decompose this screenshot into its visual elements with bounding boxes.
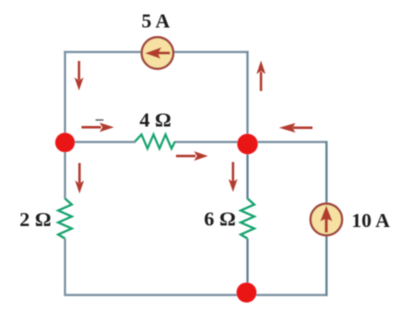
current source 5 A (circle) bbox=[142, 37, 174, 69]
current arrow left (right of center node) bbox=[279, 123, 313, 133]
resistor 6 ohm bbox=[241, 199, 255, 239]
current source 10 A (circle) bbox=[311, 204, 343, 236]
polarity dash (minus) bbox=[96, 119, 104, 121]
resistor 2 ohm bbox=[58, 199, 72, 239]
node left (junction dot) bbox=[55, 133, 75, 153]
wire left vertical upper bbox=[64, 51, 66, 199]
wire center vertical lower bbox=[246, 239, 248, 296]
label 5 A bbox=[142, 11, 171, 33]
current arrow right (before 4-ohm) bbox=[82, 123, 115, 132]
node center (junction dot) bbox=[237, 134, 258, 155]
current arrow up (right-top branch) bbox=[257, 61, 266, 92]
wire middle horizontal left of 4-ohm bbox=[65, 141, 136, 143]
wire top horizontal bbox=[64, 51, 249, 53]
resistor 4 ohm bbox=[135, 135, 175, 149]
wire bottom horizontal bbox=[64, 294, 328, 296]
label 6 ohm bbox=[204, 209, 236, 231]
node bottom (junction dot) bbox=[237, 283, 257, 303]
current arrow down (above 6-ohm) bbox=[229, 162, 238, 192]
svg-text:2 Ω: 2 Ω bbox=[20, 209, 52, 231]
svg-text:10 A: 10 A bbox=[352, 210, 391, 232]
current arrow right (after 4-ohm) bbox=[176, 151, 208, 160]
wire right vertical bbox=[325, 141, 327, 296]
svg-text:5 A: 5 A bbox=[142, 11, 171, 33]
wire middle horizontal right of 4-ohm bbox=[175, 141, 248, 143]
label 4 ohm bbox=[140, 110, 172, 132]
label 10 A bbox=[352, 210, 391, 232]
current arrow down (left branch top) bbox=[75, 61, 84, 91]
wire center node to right branch bbox=[248, 141, 327, 143]
wire left vertical lower bbox=[64, 239, 66, 297]
wire right-top vertical bbox=[246, 51, 248, 142]
svg-text:4 Ω: 4 Ω bbox=[140, 110, 172, 132]
label 2 ohm bbox=[20, 209, 52, 231]
wire center vertical upper bbox=[246, 142, 248, 199]
current arrow down (above 2-ohm) bbox=[75, 163, 84, 194]
svg-text:6 Ω: 6 Ω bbox=[204, 209, 236, 231]
